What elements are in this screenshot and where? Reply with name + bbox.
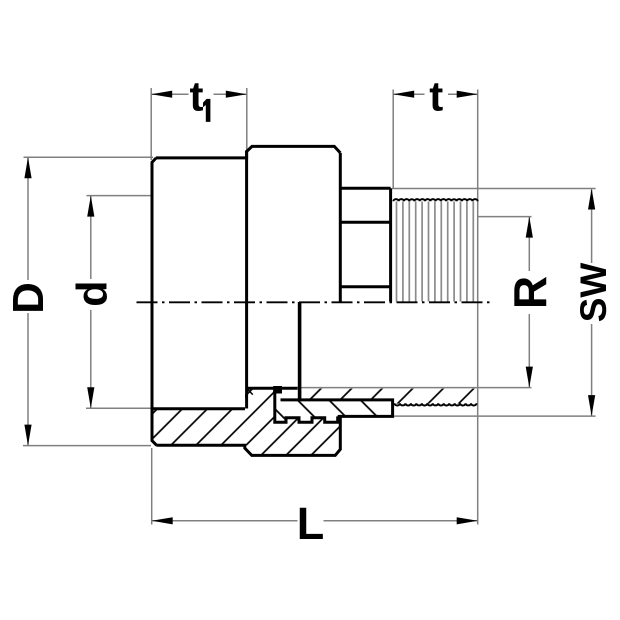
svg-text:d: d — [69, 280, 117, 306]
svg-text:t: t — [190, 72, 204, 119]
svg-text:t: t — [429, 72, 443, 119]
svg-text:L: L — [297, 498, 325, 549]
svg-text:SW: SW — [573, 263, 614, 323]
svg-text:D: D — [4, 282, 53, 314]
svg-text:R: R — [504, 276, 556, 309]
